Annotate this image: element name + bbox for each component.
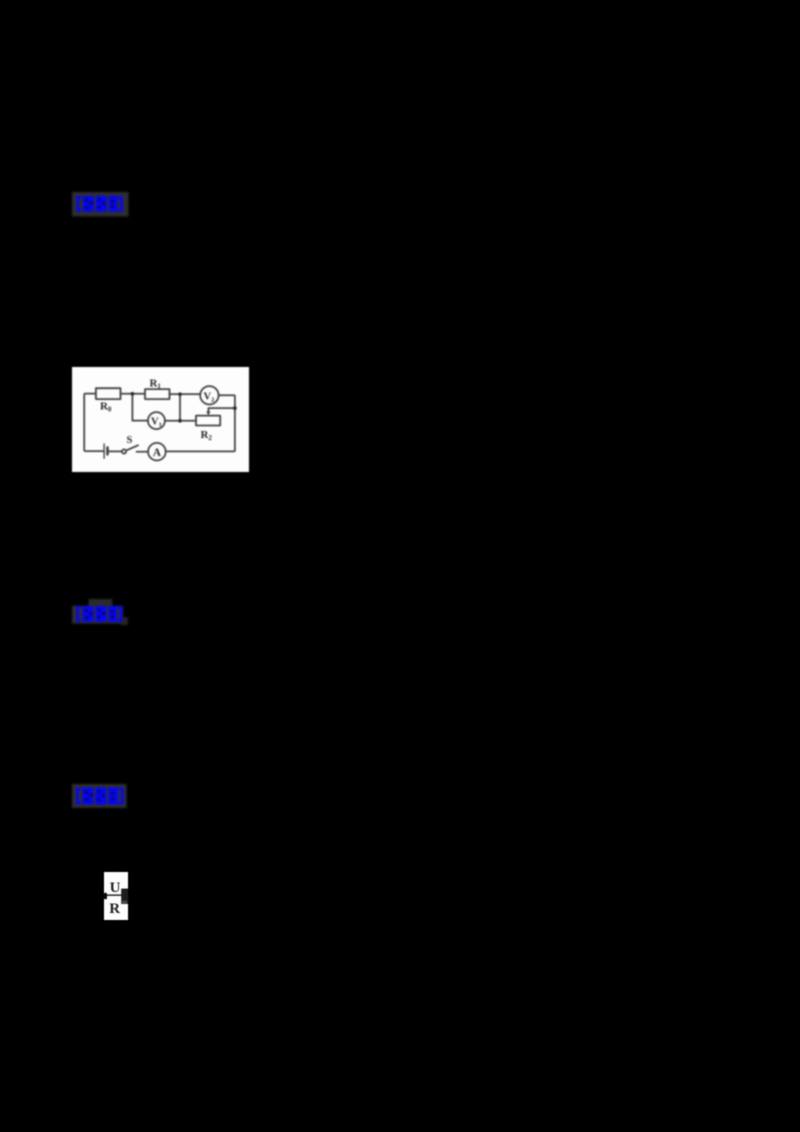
junction node B [178, 393, 182, 397]
voltmeter V1 [147, 412, 164, 429]
wire: node B down to node C [178, 394, 180, 421]
ammeter A [148, 443, 166, 461]
battery short plate [106, 448, 109, 455]
wire: R1 to node B, B to V2 [169, 393, 200, 395]
svg-text:U: U [109, 880, 120, 896]
wiper arrowhead [206, 412, 210, 416]
wire: V1 to node C [164, 420, 195, 422]
junction node A [130, 392, 134, 396]
circuit diagram image [72, 367, 249, 472]
dark overlay square [121, 888, 128, 903]
wire: switch to ammeter [136, 451, 148, 453]
fraction bar [105, 894, 125, 895]
label 2: blue heading with gray highlight [71, 598, 131, 627]
resistor R0 [95, 388, 120, 399]
wire: V2 to right rail [165, 395, 234, 451]
rheostat R2 [195, 416, 219, 426]
label 3: blue heading with gray highlight [71, 783, 131, 810]
wire: battery to switch [107, 451, 121, 453]
junction node C [178, 419, 182, 423]
left edge ink blob [104, 892, 107, 898]
svg-text:S: S [126, 435, 132, 446]
switch S pivot [121, 450, 125, 454]
wire: node A down to V1 [132, 394, 148, 421]
wire: wiper from right rail to R2 [208, 408, 234, 412]
wire: outer loop left/top [84, 394, 104, 451]
svg-text:A: A [152, 447, 161, 459]
junction node D [232, 406, 236, 410]
switch S lever [126, 445, 138, 450]
formula image: fraction U/R [104, 872, 128, 920]
label 1: blue heading with gray highlight [71, 191, 131, 218]
battery long plate [103, 444, 105, 458]
resistor R1 [145, 389, 169, 399]
voltmeter V2 [200, 386, 218, 404]
svg-text:R: R [109, 901, 120, 917]
wire: R0 to node A [120, 393, 144, 395]
